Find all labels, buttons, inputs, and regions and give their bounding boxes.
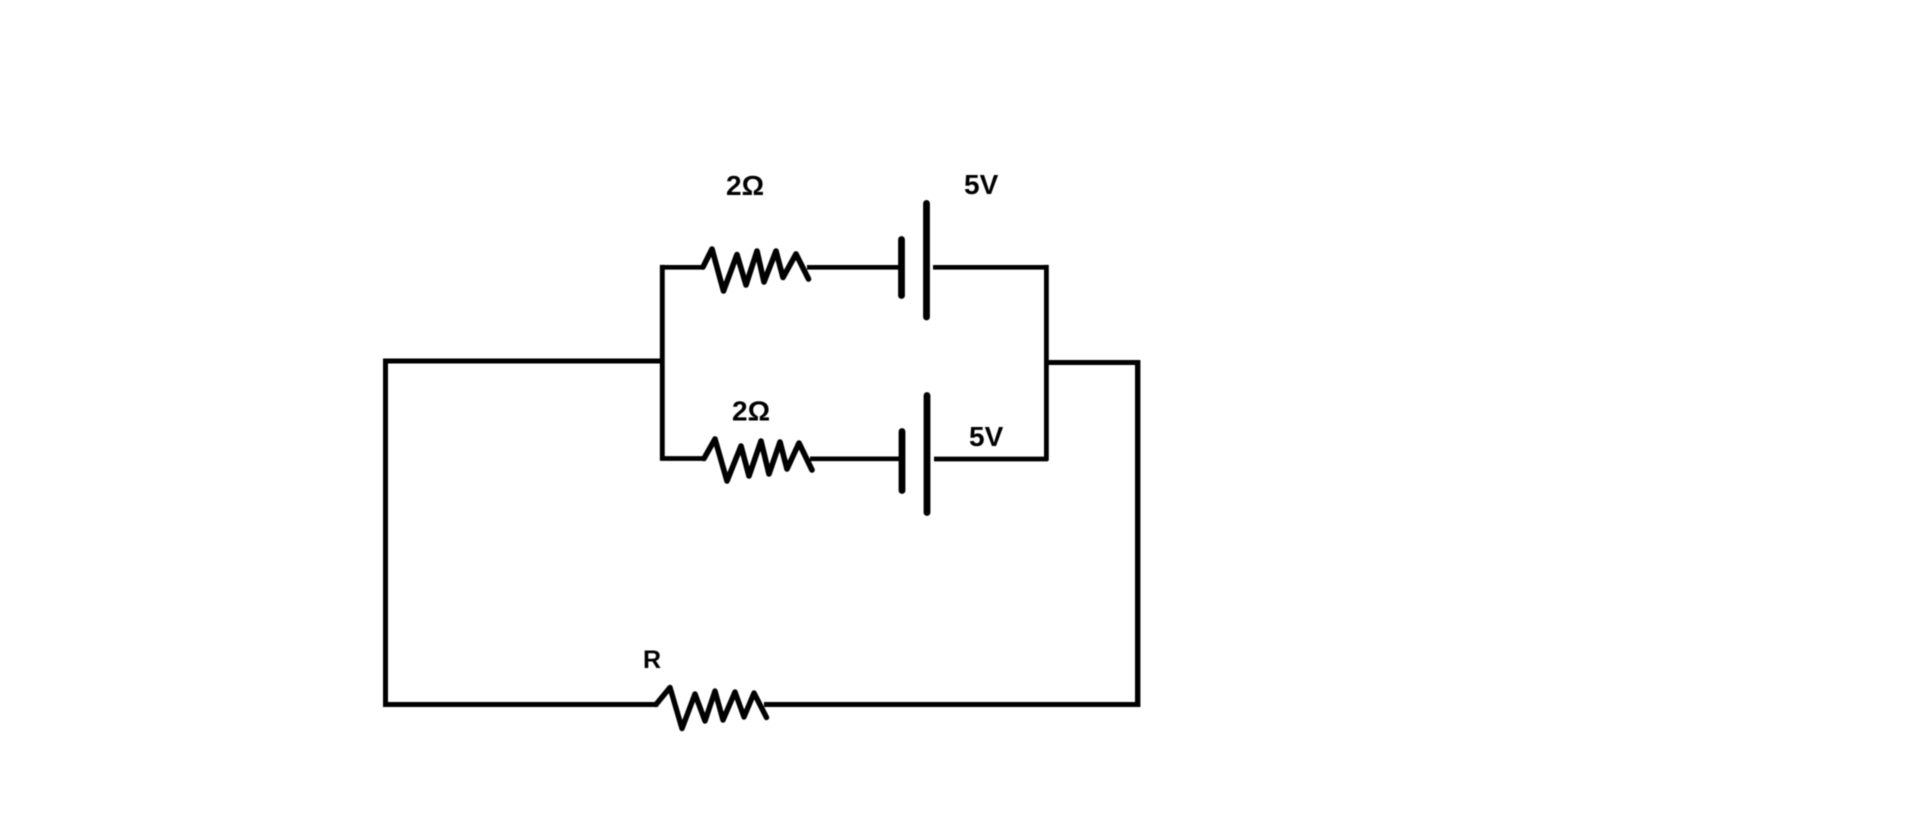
wire: middle branch, resistor to battery [810, 456, 899, 461]
wire: outer loop left vertical [383, 359, 388, 707]
resistor R (bottom) zigzag [656, 688, 767, 729]
svg-text:R: R [643, 646, 661, 674]
wire: parallel section right vertical bus [1044, 265, 1049, 461]
svg-text:5V: 5V [969, 421, 1004, 452]
svg-text:2Ω: 2Ω [732, 396, 770, 427]
wire: middle-left horizontal linking left vertical to parallel section [383, 359, 665, 364]
battery B1 5V (top branch) positive long plate [923, 203, 930, 317]
resistor R1 2Ω (top branch) zigzag [703, 249, 809, 291]
wire: top branch, resistor to battery [807, 265, 899, 270]
wire: parallel section left vertical bus [660, 265, 665, 461]
wire: top-right horizontal linking parallel section to right vertical [1044, 360, 1140, 365]
wire: top branch, bus to resistor [660, 265, 704, 270]
battery B2 5V (middle branch) positive long plate [924, 396, 931, 513]
wire: outer loop bottom horizontal, right of resistor R [764, 702, 1140, 707]
wire: middle branch, bus to resistor [660, 456, 705, 461]
battery B1 5V (top branch) negative short plate [898, 240, 905, 296]
wire: middle branch, battery to right bus [934, 457, 1048, 462]
battery B2 5V (middle branch) negative short plate [899, 432, 906, 491]
wire: top branch, battery to right bus [933, 265, 1048, 270]
svg-text:2Ω: 2Ω [726, 170, 764, 201]
resistor R2 2Ω (middle branch) zigzag [704, 439, 812, 481]
wire: outer loop bottom horizontal, left of resistor R [383, 702, 658, 707]
svg-text:5V: 5V [964, 169, 999, 200]
wire: outer loop right vertical [1135, 360, 1140, 707]
